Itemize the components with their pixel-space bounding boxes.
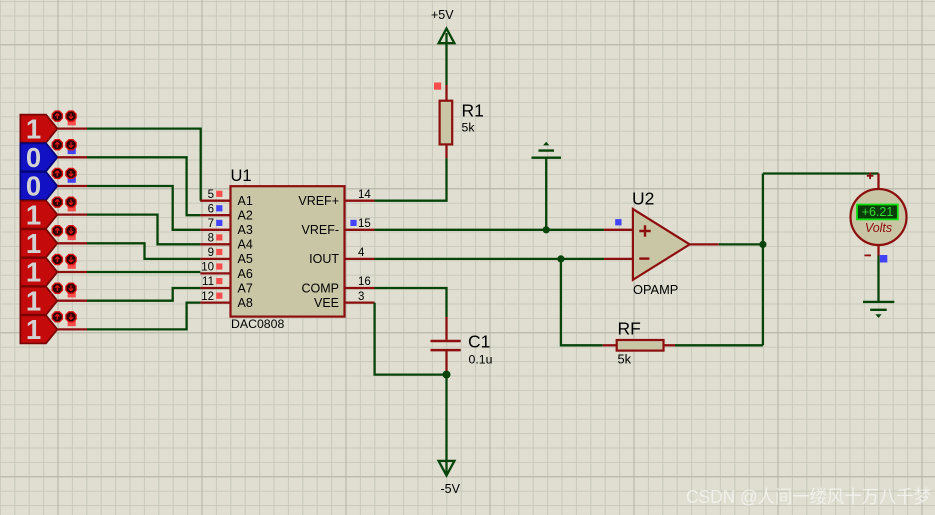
power -5V <box>439 461 461 496</box>
svg-text:A2: A2 <box>238 209 253 223</box>
wire output node to voltmeter <box>763 174 879 190</box>
wire S6 to A6 <box>57 271 200 273</box>
voltmeter body <box>851 189 907 245</box>
svg-text:VREF+: VREF+ <box>298 194 339 208</box>
svg-text:-5V: -5V <box>441 482 461 496</box>
svg-text:+5V: +5V <box>431 8 454 22</box>
svg-text:12: 12 <box>201 291 214 303</box>
logic switch S8 (state 1) <box>20 312 76 345</box>
svg-text:5k: 5k <box>462 121 476 135</box>
logic switch S1 (state 1) <box>20 111 76 144</box>
svg-text:A6: A6 <box>238 267 253 281</box>
svg-text:0: 0 <box>26 142 41 173</box>
svg-text:U2: U2 <box>632 189 654 209</box>
logic switch S7 (state 1) <box>20 283 76 316</box>
pin A4 (8) <box>200 233 252 252</box>
wire S3 to A3 <box>57 186 200 230</box>
op-amp U2 <box>632 189 690 297</box>
wire RF to output node <box>675 344 763 346</box>
wire VREF- to opamp + input <box>375 229 633 231</box>
resistor R1 5k <box>440 85 484 158</box>
resistor RF 5k <box>603 319 675 367</box>
logic switch S4 (state 1) <box>20 197 76 230</box>
svg-text:VREF-: VREF- <box>302 223 340 237</box>
wire to -5V <box>445 375 447 473</box>
pin VREF+ (14) <box>298 189 374 208</box>
junction output node <box>759 241 766 248</box>
wire S2 to A2 <box>57 157 200 215</box>
svg-text:1: 1 <box>26 199 41 230</box>
wire output node vertical <box>762 174 764 346</box>
pin A1 (5) <box>200 189 252 208</box>
wire IOUT down to RF <box>561 259 603 345</box>
svg-text:3: 3 <box>358 291 364 303</box>
svg-text:COMP: COMP <box>302 281 340 295</box>
ground (VREF- net) <box>532 142 562 230</box>
pin A3 (7) <box>200 218 252 237</box>
probe square opamp + input <box>615 219 621 225</box>
svg-text:14: 14 <box>358 189 371 201</box>
svg-text:1: 1 <box>26 228 41 259</box>
wire voltmeter to ground <box>877 245 879 302</box>
wire IOUT to opamp - input <box>375 258 633 260</box>
capacitor C1 0.1u <box>431 332 493 373</box>
svg-text:1: 1 <box>26 257 41 288</box>
svg-text:A4: A4 <box>238 238 253 252</box>
voltmeter - label <box>865 254 872 256</box>
svg-text:Volts: Volts <box>865 221 892 235</box>
junction IOUT/RF <box>557 255 564 262</box>
logic switch S6 (state 1) <box>20 254 76 287</box>
svg-text:IOUT: IOUT <box>309 252 339 266</box>
wire VEE down <box>375 303 447 375</box>
svg-text:6: 6 <box>208 203 214 215</box>
svg-text:9: 9 <box>208 247 214 259</box>
svg-text:A1: A1 <box>238 194 253 208</box>
svg-text:VEE: VEE <box>314 296 339 310</box>
svg-text:15: 15 <box>358 218 371 230</box>
svg-text:A5: A5 <box>238 252 253 266</box>
svg-text:11: 11 <box>202 276 214 288</box>
pin VEE (3) <box>314 291 375 310</box>
svg-text:16: 16 <box>358 276 371 288</box>
logic switch S3 (state 0) <box>20 168 76 201</box>
svg-text:0: 0 <box>26 171 41 202</box>
junction ground/VREF- <box>543 226 550 233</box>
svg-text:1: 1 <box>26 113 41 144</box>
wire S7 to A7 <box>57 288 200 301</box>
pin A6 (10) <box>200 262 252 281</box>
svg-text:4: 4 <box>358 247 365 259</box>
pin IOUT (4) <box>309 247 374 266</box>
svg-text:U1: U1 <box>231 167 252 185</box>
svg-text:A7: A7 <box>238 281 253 295</box>
svg-text:A8: A8 <box>238 296 253 310</box>
wire S5 to A5 <box>57 243 200 259</box>
watermark <box>686 487 931 507</box>
wire S8 to A8 <box>57 303 200 330</box>
DAC U1 body <box>231 167 345 331</box>
svg-text:0.1u: 0.1u <box>469 353 493 367</box>
svg-text:OPAMP: OPAMP <box>633 282 678 297</box>
svg-text:+6.21: +6.21 <box>862 205 894 219</box>
svg-text:7: 7 <box>208 218 214 230</box>
wire opamp output <box>690 243 763 245</box>
svg-text:C1: C1 <box>468 332 490 352</box>
svg-text:5k: 5k <box>618 352 632 367</box>
ground (voltmeter) <box>863 302 894 318</box>
logic switch S5 (state 1) <box>20 226 76 259</box>
junction C1/VEE/-5V <box>443 371 451 379</box>
svg-text:DAC0808: DAC0808 <box>231 317 284 331</box>
probe square voltmeter - <box>880 255 888 263</box>
svg-text:5: 5 <box>208 189 214 201</box>
svg-text:1: 1 <box>26 285 41 316</box>
pin COMP (16) <box>302 276 375 295</box>
power +5V <box>431 8 454 85</box>
svg-text:1: 1 <box>26 314 41 345</box>
pin A2 (6) <box>200 203 252 222</box>
svg-text:R1: R1 <box>462 101 484 121</box>
wire S4 to A4 <box>57 215 200 245</box>
voltmeter + label <box>867 173 874 180</box>
logic switch S2 (state 0) <box>20 140 76 173</box>
svg-text:8: 8 <box>208 233 214 245</box>
svg-text:CSDN @人间一缕风十万八千梦: CSDN @人间一缕风十万八千梦 <box>686 487 931 507</box>
node marker above R1 <box>434 83 441 90</box>
wire S1 to A1 <box>57 129 200 201</box>
wire COMP to C1 <box>375 288 447 340</box>
pin A5 (9) <box>200 247 252 266</box>
wire R1 to VREF+ <box>375 158 447 200</box>
pin A8 (12) <box>200 291 252 310</box>
svg-text:A3: A3 <box>238 223 253 237</box>
svg-text:10: 10 <box>201 262 214 274</box>
pin A7 (11) <box>200 276 252 295</box>
svg-text:RF: RF <box>618 319 641 339</box>
pin VREF- (15) <box>302 218 375 237</box>
